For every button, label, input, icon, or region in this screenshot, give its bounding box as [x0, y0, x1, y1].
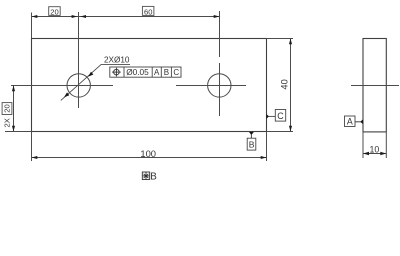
dim 10 arrows	[363, 152, 369, 155]
datum C symbol	[266, 114, 269, 119]
svg-text:A: A	[347, 117, 353, 127]
dim 2x20 arrows	[12, 86, 15, 92]
right dimension 40: extension lines	[267, 38, 294, 40]
svg-text:40: 40	[280, 79, 290, 89]
svg-text:20: 20	[50, 7, 58, 16]
dim 60 boxed value	[142, 6, 154, 15]
datum A symbol	[360, 119, 363, 124]
hole 1 horizontal centerline	[11, 85, 113, 87]
svg-text:Ø0.05: Ø0.05	[126, 67, 149, 77]
side view outline	[363, 39, 386, 132]
hole label underline	[101, 64, 130, 66]
dim 2x20 line	[13, 86, 15, 132]
svg-text:2X: 2X	[2, 118, 11, 127]
hole 1 vertical centerline	[78, 12, 80, 108]
svg-text:B: B	[150, 172, 157, 183]
dim 60 arrows	[80, 15, 86, 18]
dim 100 line	[32, 157, 267, 159]
top dimension line	[32, 16, 220, 18]
svg-text:60: 60	[144, 7, 152, 16]
dim 40 arrows	[289, 39, 292, 45]
svg-text:10: 10	[370, 144, 380, 154]
svg-text:C: C	[173, 68, 179, 77]
svg-text:20: 20	[3, 104, 12, 112]
leader arrowhead lower	[64, 92, 69, 97]
hole 2 horizontal centerline	[176, 85, 246, 87]
dim 2x20 boxed value (rotated)	[2, 103, 12, 115]
dim 20 arrows	[32, 15, 38, 18]
dim 20 boxed value	[49, 7, 61, 16]
hole 1 circle	[67, 74, 90, 97]
hole label 2XO10 leader diagonal	[61, 65, 101, 101]
side view centerline	[351, 85, 399, 87]
leader arrowhead upper	[88, 72, 93, 77]
caption: tu character	[142, 172, 149, 180]
hole 2 circle	[208, 74, 231, 97]
bottom dimension 100: extension lines	[31, 132, 33, 162]
dim 100 arrows	[32, 156, 38, 159]
svg-text:B: B	[164, 68, 169, 77]
hole 2 vertical centerline	[219, 11, 221, 57]
position symbol	[112, 68, 121, 77]
svg-text:B: B	[249, 140, 255, 150]
svg-text:2XØ10: 2XØ10	[104, 56, 130, 65]
datum B symbol	[249, 132, 254, 135]
svg-text:C: C	[277, 111, 284, 121]
plate outline (front view 100x40)	[32, 39, 267, 132]
left edge extension line (top)	[31, 13, 33, 39]
dim 40 line	[290, 39, 292, 132]
feature control frame	[110, 67, 181, 77]
svg-text:100: 100	[140, 148, 156, 159]
svg-text:A: A	[154, 68, 160, 77]
side dim 10: extension lines	[362, 132, 364, 158]
left dimension 2x20: extension line bottom	[5, 131, 32, 133]
dim 10 line	[363, 153, 386, 155]
